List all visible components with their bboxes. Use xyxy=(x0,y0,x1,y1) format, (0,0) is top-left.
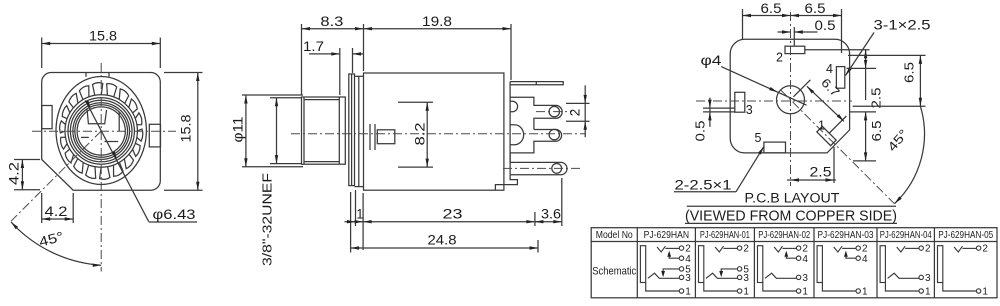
front view left side tab xyxy=(42,106,52,129)
knurl teeth ring xyxy=(60,83,143,180)
dimension 8.2 internal xyxy=(398,101,433,103)
ring r26 xyxy=(75,105,128,158)
svg-text:3/8"-32UNEF: 3/8"-32UNEF xyxy=(260,173,275,266)
svg-text:4: 4 xyxy=(802,254,808,265)
svg-text:4: 4 xyxy=(685,254,691,265)
ring r28 xyxy=(73,103,130,160)
dimension dia 11 xyxy=(242,94,303,96)
leader landing line xyxy=(149,221,197,223)
svg-text:6.5: 6.5 xyxy=(903,62,917,83)
contact bump upper xyxy=(510,101,518,112)
svg-text:2: 2 xyxy=(776,51,783,65)
svg-text:PJ-629HAN-01: PJ-629HAN-01 xyxy=(700,229,750,241)
pad 1 (rotated 45deg) xyxy=(817,126,836,145)
rear plate edge xyxy=(509,82,511,175)
front 45-degree diagonal centerline xyxy=(11,131,101,221)
front view right side tab xyxy=(149,124,160,147)
dimension 0.5 left xyxy=(703,107,735,109)
pad 5 xyxy=(764,142,786,153)
dimension 45 degrees pcb xyxy=(895,106,925,203)
table column divider xyxy=(694,228,696,298)
svg-text:15.8: 15.8 xyxy=(179,115,194,143)
dimension 2 pin offset xyxy=(566,102,590,104)
svg-text:3-1×2.5: 3-1×2.5 xyxy=(874,18,931,33)
svg-text:5: 5 xyxy=(685,265,691,276)
dimension 6.5 right upper xyxy=(848,54,926,56)
svg-text:1: 1 xyxy=(862,287,868,298)
dimensions 6.5 / 6.5 top xyxy=(742,9,744,39)
dimension 3/8in-32UNEF thread xyxy=(270,97,302,99)
dimension 4.2 left xyxy=(14,159,40,161)
svg-text:4: 4 xyxy=(862,254,868,265)
side view horizontal centerline xyxy=(291,133,586,135)
dimension 2.5 bottom xyxy=(833,147,835,183)
svg-text:(VIEWED FROM COPPER SIDE): (VIEWED FROM COPPER SIDE) xyxy=(685,208,897,224)
contact mark inside hole xyxy=(81,136,89,138)
leader arrowhead upper xyxy=(85,100,90,108)
pcb outline square with chamfer xyxy=(730,39,849,153)
dimension 15.8 top xyxy=(41,38,43,69)
pad 3 xyxy=(735,92,745,112)
threaded bushing xyxy=(302,97,346,164)
ring r33 xyxy=(68,98,134,164)
table column divider xyxy=(876,228,878,298)
contact bump center xyxy=(510,125,524,145)
svg-text:Model No: Model No xyxy=(596,229,633,241)
svg-text:4.2: 4.2 xyxy=(45,204,68,219)
washer xyxy=(358,76,360,186)
pad 2 xyxy=(785,46,805,53)
svg-text:0.5: 0.5 xyxy=(693,120,707,141)
svg-text:2.5: 2.5 xyxy=(810,165,832,180)
schematic PJ-629HAN-01 xyxy=(699,246,704,283)
svg-text:PJ-629HAN-03: PJ-629HAN-03 xyxy=(818,229,874,241)
pin B middle with hole xyxy=(510,130,562,163)
svg-text:8.2: 8.2 xyxy=(413,123,428,146)
schematic PJ-629HAN-02 xyxy=(758,246,763,283)
nut outer boss ellipse xyxy=(56,77,146,185)
svg-text:PJ-629HAN-04: PJ-629HAN-04 xyxy=(880,229,932,241)
schematic PJ-629HAN xyxy=(640,246,645,283)
svg-text:Schematic: Schematic xyxy=(592,266,636,278)
top flat terminal lug xyxy=(510,82,563,85)
svg-text:φ6.43: φ6.43 xyxy=(153,207,196,222)
front vertical centerline xyxy=(100,63,102,272)
svg-text:23: 23 xyxy=(443,207,463,222)
pin C lower with hole xyxy=(510,162,567,174)
svg-text:1: 1 xyxy=(685,287,691,298)
svg-text:1: 1 xyxy=(743,287,749,298)
dimension 6.5 right lower xyxy=(850,111,876,113)
gear root circle xyxy=(65,95,137,167)
leader arrowhead lower xyxy=(112,151,117,159)
svg-text:5: 5 xyxy=(755,131,762,145)
svg-text:6.5: 6.5 xyxy=(870,120,884,141)
svg-text:4.2: 4.2 xyxy=(6,162,21,185)
dia 6.43 leader line xyxy=(85,100,148,221)
dimension 4.2 bottom xyxy=(41,193,43,223)
svg-text:3: 3 xyxy=(925,273,931,284)
top edge tick left xyxy=(85,73,87,77)
dimensions 8.3 and 19.8 top xyxy=(301,24,303,95)
table row divider xyxy=(591,241,997,243)
pin A upper with hole xyxy=(510,97,562,129)
center hole dia 4 xyxy=(777,86,805,114)
svg-text:φ4: φ4 xyxy=(701,53,723,68)
top edge tick right xyxy=(108,73,110,77)
dimension 6.7 diagonal xyxy=(793,80,810,97)
dimensions 1, 23, 3.6 bottom xyxy=(350,192,352,253)
front view square body with bottom-left chamfer xyxy=(42,73,161,191)
svg-text:PJ-629HAN-05: PJ-629HAN-05 xyxy=(938,229,993,241)
svg-text:2-2.5×1: 2-2.5×1 xyxy=(675,178,732,193)
svg-text:2: 2 xyxy=(568,109,583,117)
main body rectangle xyxy=(364,73,504,190)
internal switch actuator xyxy=(369,124,371,150)
svg-text:φ11: φ11 xyxy=(231,117,246,143)
dimension 15.8 right xyxy=(164,72,203,74)
pcb horizontal centerline xyxy=(696,100,852,102)
front horizontal centerline xyxy=(32,130,176,132)
svg-text:3: 3 xyxy=(746,103,753,117)
ring r31 xyxy=(70,100,132,162)
contact edge inside hole xyxy=(105,141,119,143)
svg-text:PJ-629HAN-02: PJ-629HAN-02 xyxy=(758,229,810,241)
svg-text:1: 1 xyxy=(356,207,363,222)
plug opening cup profile xyxy=(87,109,107,123)
plug hole circle dia 6.43 xyxy=(77,107,125,155)
schematic PJ-629HAN-04 xyxy=(880,246,885,283)
svg-text:2: 2 xyxy=(982,244,988,255)
svg-text:3: 3 xyxy=(802,273,808,284)
dimension 45 degrees arc xyxy=(11,222,101,265)
45 arc arrowhead right xyxy=(93,264,102,267)
dimension 0.5 top xyxy=(793,27,795,46)
schematic PJ-629HAN-03 xyxy=(817,246,822,283)
svg-text:1: 1 xyxy=(982,287,988,298)
svg-text:8.3: 8.3 xyxy=(320,14,343,29)
svg-text:3.6: 3.6 xyxy=(541,207,561,222)
table column divider xyxy=(636,228,638,298)
table column divider xyxy=(753,228,755,298)
svg-text:2.5: 2.5 xyxy=(870,87,884,108)
pad 4 xyxy=(836,67,844,89)
svg-text:PJ-629HAN: PJ-629HAN xyxy=(644,229,690,241)
svg-text:5: 5 xyxy=(743,265,749,276)
svg-text:1.7: 1.7 xyxy=(303,39,324,54)
svg-text:1: 1 xyxy=(818,118,825,132)
dimension 24.8 xyxy=(351,247,538,249)
knurled nut flange xyxy=(349,74,355,186)
table column divider xyxy=(933,228,935,298)
pcb vertical centerline xyxy=(790,12,792,186)
svg-text:15.8: 15.8 xyxy=(89,29,117,44)
svg-text:1: 1 xyxy=(925,287,931,298)
svg-text:2: 2 xyxy=(743,244,749,255)
svg-text:0.5: 0.5 xyxy=(815,18,836,33)
schematic PJ-629HAN-05 xyxy=(938,246,943,283)
svg-text:24.8: 24.8 xyxy=(428,233,457,248)
svg-text:4: 4 xyxy=(826,62,833,76)
svg-text:19.8: 19.8 xyxy=(422,14,452,29)
svg-text:6.5: 6.5 xyxy=(805,1,826,16)
contact chord inside hole xyxy=(118,112,120,131)
bottom right steps xyxy=(495,175,517,190)
dimension 2.5 right xyxy=(805,49,870,51)
pcb 45-degree diagonal centerline xyxy=(781,90,895,204)
45 arc arrowhead left xyxy=(11,222,18,229)
table column divider xyxy=(813,228,815,298)
dimension 1.7 xyxy=(339,48,341,95)
svg-text:6.5: 6.5 xyxy=(761,1,782,16)
svg-text:P.C.B LAYOUT: P.C.B LAYOUT xyxy=(745,190,840,206)
svg-text:2: 2 xyxy=(925,244,931,255)
svg-text:1: 1 xyxy=(802,287,808,298)
